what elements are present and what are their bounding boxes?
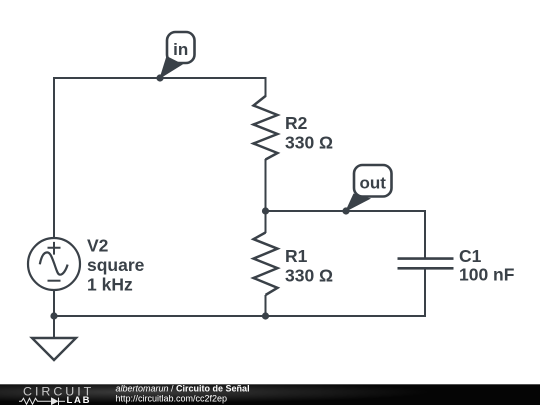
footer bar bbox=[0, 384, 540, 405]
wire ground stub bbox=[53, 316, 55, 338]
wire net in: V2 top to R2 top bbox=[54, 78, 266, 237]
svg-text:V2: V2 bbox=[87, 235, 109, 255]
voltage source V2 bbox=[28, 238, 80, 290]
svg-text:R2: R2 bbox=[285, 113, 308, 133]
svg-text:http://circuitlab.com/cc2f2ep: http://circuitlab.com/cc2f2ep bbox=[116, 394, 228, 404]
capacitor C1 bbox=[398, 259, 454, 269]
node dot in bbox=[156, 74, 163, 81]
svg-text:1 kHz: 1 kHz bbox=[87, 275, 133, 295]
node dot gnd-left bbox=[50, 312, 57, 319]
svg-text:C1: C1 bbox=[459, 246, 482, 266]
svg-text:in: in bbox=[173, 40, 188, 59]
node dot out-left bbox=[262, 207, 269, 214]
svg-text:100 nF: 100 nF bbox=[459, 264, 515, 284]
wire net out: R2 bottom to mid rail bbox=[265, 160, 267, 232]
label R2 value bbox=[285, 113, 333, 153]
svg-text:330 Ω: 330 Ω bbox=[285, 266, 333, 286]
node dot out-right bbox=[342, 207, 349, 214]
resistor R2 bbox=[254, 96, 278, 160]
node dot gnd-right bbox=[262, 312, 269, 319]
resistor R1 bbox=[254, 233, 278, 296]
node flag in bbox=[159, 32, 194, 79]
label R1 value bbox=[285, 246, 333, 286]
ground bbox=[32, 338, 76, 360]
svg-text:LAB: LAB bbox=[67, 395, 92, 405]
svg-text:square: square bbox=[87, 255, 145, 275]
svg-text:albertomarun / Circuito de Señ: albertomarun / Circuito de Señal bbox=[116, 383, 250, 393]
wire net gnd: R1 bottom to bottom rail bbox=[265, 296, 267, 316]
svg-text:out: out bbox=[359, 173, 386, 192]
label C1 value bbox=[459, 246, 515, 284]
node flag out bbox=[345, 165, 392, 212]
wire bottom rail bbox=[54, 269, 425, 316]
svg-text:330 Ω: 330 Ω bbox=[285, 133, 333, 153]
svg-text:R1: R1 bbox=[285, 246, 308, 266]
logo resistor-diode graphic bbox=[19, 398, 65, 405]
wire mid rail out to C1 bbox=[266, 211, 426, 258]
label V2 value bbox=[87, 235, 145, 294]
